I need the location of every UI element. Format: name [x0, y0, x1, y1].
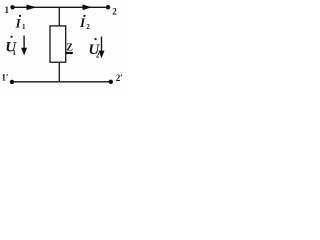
terminal 1 — [10, 5, 14, 9]
svg-text:1: 1 — [22, 23, 26, 31]
label Z — [66, 43, 73, 55]
voltage label U2 — [88, 38, 100, 60]
svg-text:I: I — [15, 15, 22, 30]
svg-text:2: 2 — [96, 52, 100, 60]
label I1 — [15, 15, 26, 31]
voltage label U1 — [5, 36, 17, 57]
voltage arrow U2 — [99, 37, 105, 59]
wire bottom from terminal 1' to terminal 2' — [12, 81, 111, 83]
terminal 2' — [109, 80, 113, 84]
current arrow I2 — [83, 4, 92, 10]
svg-text:2′: 2′ — [116, 73, 123, 83]
wire from top line down to impedance box — [58, 7, 60, 26]
svg-text:I: I — [79, 15, 86, 30]
svg-text:2: 2 — [86, 23, 90, 31]
svg-text:1: 1 — [5, 5, 10, 15]
wire from impedance box down to bottom line — [58, 62, 60, 81]
terminal 1' — [10, 80, 14, 84]
svg-text:1: 1 — [12, 49, 16, 57]
svg-text:2: 2 — [112, 7, 117, 17]
impedance Z box — [50, 26, 66, 62]
svg-text:1′: 1′ — [2, 73, 9, 83]
wire top from terminal 1 to terminal 2 — [13, 6, 109, 8]
label I2 — [79, 15, 90, 31]
terminal 2 — [106, 5, 110, 9]
voltage arrow U1 — [21, 36, 27, 56]
current arrow I1 — [27, 5, 37, 11]
